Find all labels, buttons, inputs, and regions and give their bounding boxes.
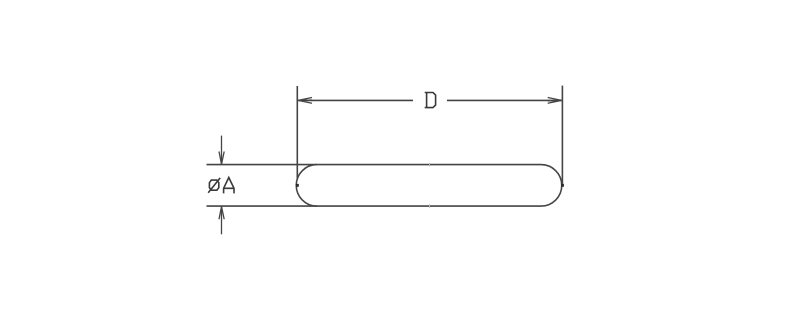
node marker left (pin end point) xyxy=(296,184,299,187)
pin left end arc xyxy=(296,165,317,207)
pin right end arc xyxy=(541,165,562,207)
pin body top edge (also ØA extension line) xyxy=(207,164,542,166)
arrowhead right (D dimension) xyxy=(548,98,562,104)
ØA dimension arrow bottom (pointing up) xyxy=(219,207,224,235)
label D (dimension text) xyxy=(425,93,436,108)
extension line left (for D) xyxy=(296,86,298,179)
extension line right (for D) xyxy=(561,86,563,184)
arrowhead left (D dimension) xyxy=(298,98,312,104)
label ØA diameter symbol xyxy=(208,178,220,193)
label ØA letter A xyxy=(224,178,234,194)
dimension line D left segment xyxy=(298,99,413,101)
node marker right (pin end point) xyxy=(561,184,564,187)
midpoint tick on bottom edge xyxy=(429,204,431,208)
dimension line D right segment xyxy=(447,99,562,101)
pin body bottom edge (also ØA extension line) xyxy=(207,205,542,207)
ØA dimension arrow top (pointing down) xyxy=(219,136,224,165)
midpoint tick on top edge xyxy=(429,163,431,167)
